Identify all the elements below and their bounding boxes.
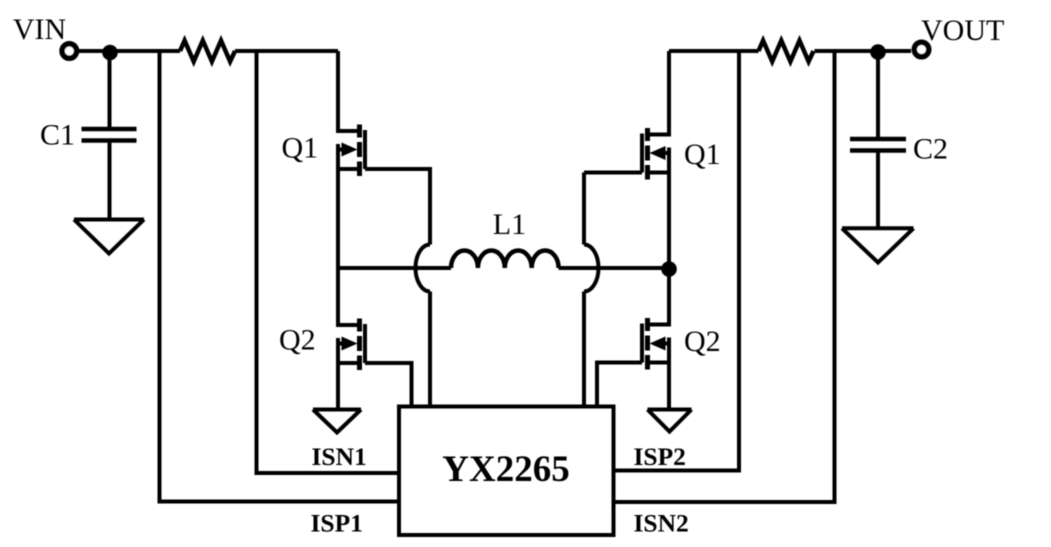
svg-text:ISP1: ISP1 [311,509,363,538]
svg-text:Q1: Q1 [282,132,319,165]
svg-text:Q2: Q2 [279,324,316,357]
svg-text:ISN2: ISN2 [634,509,689,538]
svg-text:ISP2: ISP2 [634,442,686,471]
svg-text:VIN: VIN [13,13,66,46]
svg-text:Q1: Q1 [684,138,721,171]
svg-text:YX2265: YX2265 [442,449,569,490]
svg-text:C1: C1 [40,119,75,152]
svg-text:Q2: Q2 [684,325,721,358]
svg-text:VOUT: VOUT [921,14,1004,47]
svg-text:L1: L1 [493,208,526,241]
svg-text:C2: C2 [913,133,948,166]
svg-text:ISN1: ISN1 [312,442,367,471]
